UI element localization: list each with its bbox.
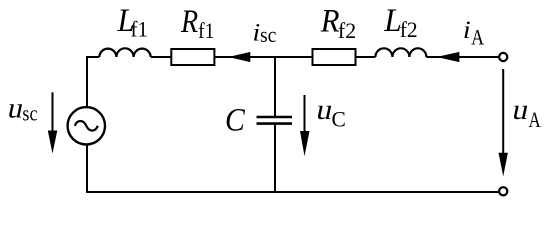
svg-text:R: R [320, 3, 340, 39]
svg-text:A: A [471, 26, 484, 50]
svg-text:sc: sc [22, 102, 37, 126]
svg-text:A: A [529, 109, 542, 133]
svg-text:sc: sc [260, 22, 276, 47]
svg-text:C: C [332, 107, 346, 131]
svg-text:C: C [225, 101, 246, 138]
svg-text:f1: f1 [131, 17, 148, 42]
svg-text:f1: f1 [198, 18, 214, 43]
svg-text:R: R [180, 3, 198, 40]
svg-text:i: i [253, 19, 261, 47]
svg-text:f2: f2 [338, 18, 356, 43]
svg-text:i: i [463, 16, 471, 44]
svg-text:f2: f2 [400, 18, 418, 42]
